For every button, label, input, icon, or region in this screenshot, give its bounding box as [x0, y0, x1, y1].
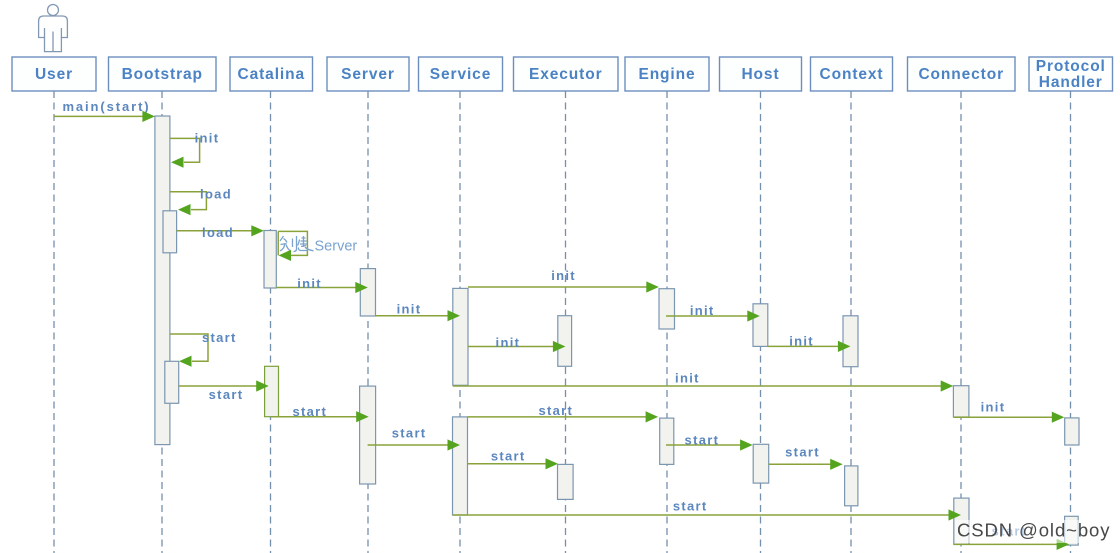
object box Bootstrap — [109, 57, 217, 91]
svg-text:main(start): main(start) — [62, 99, 150, 114]
svg-text:Connector: Connector — [918, 66, 1004, 83]
svg-text:init: init — [789, 334, 814, 349]
svg-text:init: init — [690, 303, 715, 318]
activation bar Executor start — [558, 464, 574, 499]
svg-text:Catalina: Catalina — [238, 66, 306, 83]
message arrow init Server->Service — [376, 310, 461, 321]
svg-text:Context: Context — [820, 66, 884, 83]
svg-text:init: init — [297, 276, 322, 291]
message arrow init Connector->ProtocolHandler — [954, 412, 1065, 423]
svg-text:load: load — [200, 187, 232, 202]
svg-text:init: init — [551, 268, 576, 283]
activation bar Engine init — [659, 289, 675, 329]
activation bar ProtocolHandler init — [1065, 418, 1079, 445]
svg-text:start: start — [491, 448, 526, 463]
svg-text:init: init — [195, 131, 220, 146]
message arrow start Connector->ProtocolHandler — [954, 539, 1069, 550]
lifeline Service — [459, 91, 461, 553]
activation bar Connector init — [953, 386, 969, 417]
svg-text:start: start — [209, 387, 244, 402]
activation bar Bootstrap nested start — [165, 361, 179, 403]
svg-text:load: load — [202, 225, 234, 240]
activation bar Catalina init — [264, 231, 276, 289]
activation bar Connector start — [954, 498, 969, 544]
lifeline Context — [850, 91, 852, 553]
actor icon (user) — [39, 5, 68, 52]
message arrow start Service->Engine — [468, 411, 659, 422]
lifeline Server — [367, 91, 369, 553]
message arrow init Engine->Host — [666, 310, 760, 321]
self message load on Bootstrap — [170, 192, 207, 215]
message arrow start Catalina->Server — [271, 411, 369, 422]
svg-text:start: start — [292, 404, 327, 419]
lifeline Executor — [565, 91, 567, 553]
message arrow start Host->Context — [769, 459, 843, 470]
svg-text:start: start — [785, 444, 820, 459]
activation bar Host start — [753, 444, 769, 483]
svg-text:init: init — [397, 302, 422, 317]
message arrow init Service->Connector — [453, 380, 953, 391]
activation bar Engine start — [660, 418, 674, 464]
activation bar Service start — [453, 417, 468, 515]
activation bar Catalina start (green) — [265, 366, 279, 416]
svg-text:CSDN @old~boy: CSDN @old~boy — [957, 520, 1110, 541]
svg-text:User: User — [35, 66, 73, 83]
svg-text:Server: Server — [315, 239, 358, 255]
object box Executor — [514, 57, 619, 91]
svg-text:start: start — [392, 426, 427, 441]
lifeline User — [53, 91, 55, 553]
activation bar Server start — [360, 386, 376, 484]
svg-text:Server: Server — [341, 66, 395, 83]
object box Connector — [908, 57, 1016, 91]
object box Context — [811, 57, 893, 91]
svg-text:Executor: Executor — [529, 66, 603, 83]
object box Engine — [625, 57, 709, 91]
object box Service — [419, 57, 503, 91]
svg-text:start: start — [202, 330, 237, 345]
message arrow start Server->Service — [368, 439, 460, 450]
message arrow start Service->Executor — [468, 458, 559, 469]
svg-text:init: init — [496, 335, 521, 350]
svg-text:Bootstrap: Bootstrap — [122, 66, 203, 83]
object box Protocol Handler — [1029, 57, 1113, 91]
svg-text:Handler: Handler — [1039, 74, 1103, 91]
lifeline Engine — [666, 91, 668, 553]
message arrow init Service->Engine — [468, 281, 659, 292]
activation bar Executor init — [558, 316, 572, 367]
activation bar ProtocolHandler start — [1065, 516, 1079, 545]
svg-text:start: start — [685, 433, 720, 448]
activation bar Service init — [453, 288, 468, 385]
message arrow init Service->Executor — [468, 341, 565, 352]
svg-text:Protocol: Protocol — [1036, 58, 1106, 75]
message arrow start Engine->Host — [666, 439, 753, 450]
activation bar Bootstrap main — [155, 116, 170, 445]
activation bar Context init — [843, 316, 858, 367]
svg-text:init: init — [675, 371, 700, 386]
self message loop on Catalina (create server) — [278, 231, 307, 261]
lifeline Host — [760, 91, 762, 553]
lifeline Bootstrap — [161, 91, 163, 553]
svg-text:start: start — [538, 403, 573, 418]
label 创建Server (创建 drawn as strokes) — [280, 236, 314, 252]
message arrow start Bootstrap->Catalina — [179, 380, 269, 391]
svg-text:init: init — [981, 400, 1006, 415]
object box User — [12, 57, 96, 91]
watermark CSDN @old-boy — [955, 520, 1110, 544]
message arrow load Bootstrap->Catalina — [177, 225, 264, 236]
lifeline Catalina — [270, 91, 272, 553]
svg-text:Host: Host — [741, 66, 779, 83]
svg-text:start: start — [673, 498, 708, 513]
object box Server — [327, 57, 409, 91]
self message init on Bootstrap — [170, 138, 200, 167]
activation bar Bootstrap nested load — [163, 211, 177, 253]
lifeline Connector — [960, 91, 962, 553]
message arrow start Service->Connector — [453, 509, 962, 520]
activation bar Host init — [753, 304, 768, 347]
activation bar Context start — [845, 466, 858, 506]
activation bar Server init — [360, 269, 375, 316]
message arrow main(start) User->Bootstrap — [54, 111, 155, 122]
message arrow init Catalina->Server — [276, 282, 368, 293]
object box Catalina — [230, 57, 313, 91]
svg-text:Engine: Engine — [638, 66, 695, 83]
svg-text:Service: Service — [430, 66, 491, 83]
object box Host — [720, 57, 802, 91]
self message start on Bootstrap — [170, 334, 208, 367]
lifeline Protocol Handler — [1070, 91, 1072, 553]
message arrow init Host->Context — [768, 341, 851, 352]
